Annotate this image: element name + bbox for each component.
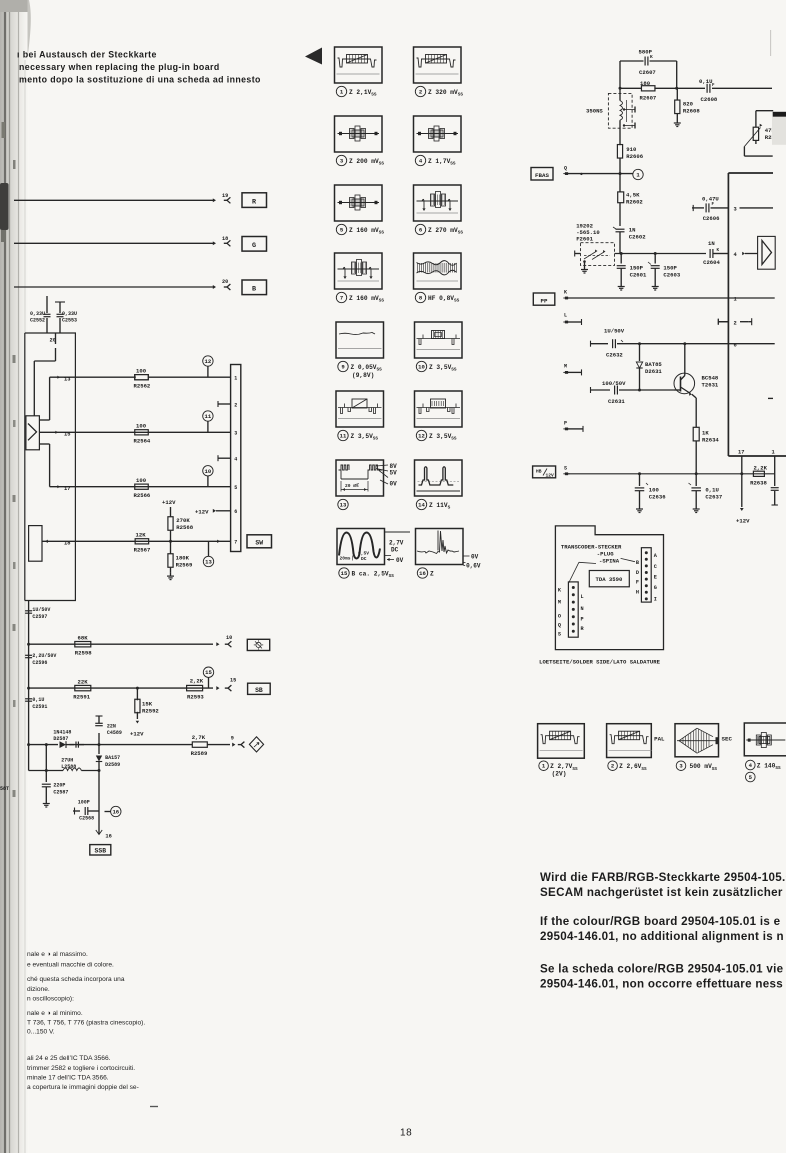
svg-text:R2638: R2638 (750, 480, 767, 487)
svg-text:SW: SW (255, 539, 263, 546)
capacitor C2606 (692, 196, 728, 223)
resistor R2598 (75, 635, 92, 657)
svg-text:15: 15 (341, 570, 348, 577)
capacitor C2552 (30, 296, 51, 333)
svg-text:Q: Q (564, 166, 567, 172)
node 12 test point (203, 356, 213, 377)
svg-text:4: 4 (749, 762, 753, 769)
svg-text:0V: 0V (390, 481, 398, 488)
svg-text:D: D (636, 570, 639, 576)
resistor R2566 (134, 477, 151, 499)
svg-text:0...150 V.: 0...150 V. (27, 1029, 55, 1036)
svg-text:Z 200 mVSS: Z 200 mVSS (349, 158, 384, 167)
svg-text:K: K (558, 588, 562, 594)
svg-text:C2568: C2568 (79, 816, 94, 822)
junction L2588 D2589 (98, 769, 101, 772)
wire B output (14, 285, 216, 289)
net stub right edge (768, 397, 773, 399)
svg-text:F: F (636, 580, 639, 586)
label fragment 587 (0, 786, 9, 792)
capacitor C2591 (25, 697, 47, 710)
svg-text:C2596: C2596 (32, 660, 47, 666)
filter F2601 dashed box (581, 243, 615, 266)
svg-text:15: 15 (205, 669, 212, 676)
transcoder leader lines (568, 558, 635, 583)
svg-text:12V: 12V (546, 473, 555, 479)
oscillogram 14 (415, 460, 463, 511)
svg-text:E: E (654, 575, 657, 581)
pointer arrow (305, 48, 322, 65)
oscillogram 4 (414, 116, 462, 167)
svg-text:0V: 0V (396, 557, 404, 564)
svg-text:S: S (564, 466, 567, 472)
svg-text:R2606: R2606 (626, 153, 643, 160)
transcoder left pin labels KMOQS (558, 588, 562, 638)
oscillogram 3 (335, 116, 385, 167)
transcoder right pin strip (641, 548, 651, 602)
svg-text:2,2K: 2,2K (754, 465, 768, 472)
ground C2601 (618, 283, 625, 290)
oscillogram 2 (414, 47, 464, 98)
svg-text:G: G (654, 585, 657, 591)
junction pin9 row (98, 743, 101, 746)
transcoder right pin labels ACEGI (654, 553, 658, 603)
capacitor C2631 (591, 380, 675, 405)
connector strip J1 (231, 365, 241, 552)
resistor R2569 (168, 541, 193, 572)
svg-text:F: F (712, 203, 715, 207)
gutter dark marks (0, 0, 31, 797)
svg-text:necessary when replacing the p: necessary when replacing the plug-in boa… (19, 62, 220, 72)
svg-text:B: B (252, 286, 256, 294)
pin 20 internal (34, 333, 56, 416)
svg-text:R2592: R2592 (142, 708, 159, 715)
ground C2603 (652, 283, 659, 290)
svg-text:C2602: C2602 (629, 234, 646, 241)
svg-text:ali 24 e 25 dell’IC TDA 3566.: ali 24 e 25 dell’IC TDA 3566. (27, 1055, 111, 1062)
svg-text:K: K (650, 54, 653, 60)
svg-text:4: 4 (234, 457, 237, 463)
resistor R2568 (168, 507, 194, 541)
ground C2637 (693, 506, 700, 513)
pin2 outside stub (718, 319, 728, 325)
svg-text:15K: 15K (142, 701, 153, 708)
svg-text:15: 15 (64, 432, 70, 438)
svg-text:16: 16 (419, 570, 426, 577)
svg-text:1U/50V: 1U/50V (604, 328, 625, 335)
svg-text:13: 13 (340, 502, 347, 509)
svg-text:6: 6 (234, 509, 237, 515)
pin 1 label (728, 297, 774, 303)
ic TDA box (728, 173, 786, 456)
svg-text:Z 270 mVSS: Z 270 mVSS (428, 227, 463, 236)
svg-text:C2606: C2606 (703, 215, 720, 222)
pin 13 stub (50, 376, 76, 383)
svg-text:+12V: +12V (736, 518, 750, 525)
svg-text:nale e ◑ al massimo.: nale e ◑ al massimo. (27, 951, 88, 958)
svg-text:270K: 270K (176, 517, 190, 524)
svg-text:11: 11 (340, 433, 347, 440)
transcoder left pin labels LNPR (581, 594, 585, 632)
pin 18 stub (771, 450, 779, 506)
page number (400, 1128, 412, 1139)
note german (540, 871, 786, 899)
wire C2607 right leg (676, 61, 678, 88)
solder side caption (539, 659, 660, 666)
net label PP (533, 293, 555, 305)
svg-text:M: M (558, 600, 561, 606)
svg-text:9: 9 (341, 364, 345, 371)
svg-text:100P: 100P (78, 800, 90, 806)
transistor T2631 (674, 344, 719, 428)
resistor R2607 (620, 80, 677, 102)
resistor R2608 (675, 88, 701, 119)
svg-text:ché questa scheda incorpora un: ché questa scheda incorpora una (27, 976, 125, 983)
ic TDA 3590 label (589, 571, 629, 587)
svg-text:R2607: R2607 (640, 95, 657, 102)
svg-text:R2589: R2589 (191, 750, 208, 757)
svg-text:K: K (564, 290, 567, 296)
svg-text:+12V: +12V (162, 499, 176, 506)
svg-text:PAL: PAL (654, 736, 665, 743)
wire pin17 to connector (75, 486, 230, 488)
svg-text:0,5V: 0,5V (358, 551, 369, 557)
resistor R2589 (191, 734, 208, 757)
svg-text:2: 2 (419, 89, 423, 96)
svg-text:Z 3,5VSS: Z 3,5VSS (429, 433, 457, 442)
svg-text:R2568: R2568 (176, 524, 193, 531)
coil 350NS dashed box (586, 93, 632, 128)
capacitor C2601 (617, 254, 647, 284)
svg-text:1N: 1N (629, 227, 636, 234)
svg-text:6: 6 (419, 227, 423, 234)
svg-text:22N: 22N (107, 724, 116, 730)
svg-text:C2603: C2603 (663, 272, 680, 279)
svg-text:10: 10 (418, 364, 425, 371)
diode D2587 (53, 730, 84, 749)
svg-text:Z 3,5VSS: Z 3,5VSS (351, 433, 379, 442)
capacitor C2596 (25, 653, 56, 666)
capacitor C2604 (703, 240, 728, 266)
capacitor C2636 (635, 474, 666, 506)
svg-text:1: 1 (772, 450, 775, 456)
node 15 test point (203, 667, 213, 688)
svg-text:T 736, T 756, T 776 (piastra c: T 736, T 756, T 776 (piastra cinescopio)… (27, 1020, 145, 1027)
svg-text:0,33U: 0,33U (30, 311, 45, 317)
svg-text:H: H (636, 590, 639, 596)
svg-text:2: 2 (234, 402, 237, 408)
svg-text:12: 12 (418, 433, 425, 440)
resistor R2562 (134, 368, 151, 390)
wire pin18 row (42, 540, 231, 543)
svg-text:Se la scheda colore/RGB 29504-: Se la scheda colore/RGB 29504-105.01 vie (540, 963, 784, 976)
ic module box left (25, 333, 76, 601)
svg-text:1: 1 (636, 172, 640, 179)
resistor R2634 (693, 427, 719, 474)
oscillogram B2 (607, 724, 665, 772)
svg-text:trimmer 2582 e togliere i cort: trimmer 2582 e togliere i cortocircuiti. (27, 1065, 135, 1072)
svg-text:C2637: C2637 (705, 494, 722, 501)
svg-text:nale e ◑ al minimo.: nale e ◑ al minimo. (27, 1010, 83, 1017)
pin 18 stub (64, 541, 70, 547)
pin 2 stub connector (218, 401, 231, 407)
oscillogram 12 (415, 391, 463, 442)
svg-text:G: G (252, 242, 256, 250)
svg-text:17: 17 (738, 450, 744, 456)
svg-text:Z 160 mVSS: Z 160 mVSS (349, 295, 384, 304)
wire pin15 to connector (75, 431, 230, 433)
pin 4 label (734, 252, 758, 258)
svg-text:0,1U: 0,1U (705, 487, 718, 494)
pot R2609 (744, 111, 773, 156)
svg-text:-PLUG: -PLUG (597, 551, 614, 558)
diode D2631 (636, 344, 662, 390)
svg-text:R2566: R2566 (134, 492, 151, 499)
capacitor C2608 (677, 78, 772, 103)
svg-text:1N: 1N (708, 240, 715, 247)
net label B (242, 280, 267, 295)
svg-text:100: 100 (136, 368, 147, 375)
wire G output (14, 241, 216, 245)
svg-text:C2632: C2632 (606, 352, 623, 359)
oscillogram 11 (336, 391, 384, 442)
svg-text:0,33U: 0,33U (62, 311, 77, 317)
filter F2601 symbol (584, 250, 610, 260)
svg-text:-0,6V: -0,6V (463, 563, 481, 570)
svg-text:10: 10 (226, 635, 232, 641)
oscillogram 8 (414, 253, 462, 304)
wire R output (14, 198, 216, 202)
svg-text:0,47U: 0,47U (702, 196, 719, 203)
svg-text:HB: HB (536, 469, 542, 475)
capacitor C2637 (689, 474, 723, 506)
svg-text:2: 2 (611, 763, 615, 770)
ground R2569 (167, 573, 174, 580)
resistor R2606 (617, 128, 643, 173)
junction R2607 (619, 87, 679, 90)
svg-text:Z 140SS: Z 140SS (757, 763, 781, 772)
heading italian line (19, 75, 261, 85)
net label FBAS (531, 168, 553, 181)
svg-text:D2631: D2631 (645, 368, 662, 375)
svg-text:C4589: C4589 (107, 730, 122, 736)
svg-text:R2593: R2593 (187, 694, 204, 701)
svg-text:C2591: C2591 (32, 704, 47, 710)
svg-text:180K: 180K (176, 555, 190, 562)
svg-text:0V: 0V (471, 554, 479, 561)
oscillogram B1 (538, 724, 585, 778)
junction pin18 (169, 540, 172, 543)
svg-text:R2569: R2569 (176, 562, 193, 569)
svg-text:C2601: C2601 (630, 272, 647, 279)
svg-text:11: 11 (205, 413, 212, 420)
pin 2 label (718, 318, 751, 326)
node 19 connector R (222, 193, 230, 203)
wire pin15 SB row (29, 686, 220, 690)
net label diamond (249, 737, 263, 752)
wire pin13 to connector (75, 376, 230, 378)
svg-text:2,7K: 2,7K (192, 734, 206, 741)
svg-text:1: 1 (542, 763, 546, 770)
svg-text:4: 4 (419, 158, 423, 165)
pin 17 stub (50, 485, 76, 492)
terminal S (563, 466, 569, 476)
svg-text:TDA 3590: TDA 3590 (596, 576, 623, 583)
supply +12V pin6 (195, 509, 231, 516)
ground R2608 (674, 120, 681, 127)
oscillogram 13 (336, 460, 397, 510)
svg-text:SB: SB (255, 687, 263, 694)
wire chroma row (615, 252, 707, 255)
wire left rail lower (27, 601, 30, 771)
terminal K (563, 290, 569, 300)
svg-text:Wird die FARB/RGB-Steckkarte 2: Wird die FARB/RGB-Steckkarte 29504-105.0… (540, 871, 786, 884)
svg-text:Z 2,1VSS: Z 2,1VSS (349, 89, 377, 98)
svg-text:R2591: R2591 (73, 694, 90, 701)
svg-text:500 mVSS: 500 mVSS (690, 763, 718, 772)
wire pin10 row (29, 642, 220, 646)
svg-text:DC: DC (361, 556, 367, 562)
svg-text:ı bei Austausch der Steckkarte: ı bei Austausch der Steckkarte (17, 50, 157, 60)
svg-text:B ca. 2,5VSS: B ca. 2,5VSS (352, 571, 395, 580)
svg-text:100: 100 (136, 423, 147, 430)
svg-text:P: P (581, 617, 584, 623)
svg-text:1: 1 (340, 89, 344, 96)
resistor R2591 (73, 679, 91, 701)
svg-text:18: 18 (400, 1128, 412, 1139)
terminal P (563, 421, 583, 432)
wire K to pin1 (568, 297, 728, 299)
node 20 connector B (222, 279, 230, 290)
wire left drop C2587 (45, 745, 48, 782)
svg-text:17: 17 (64, 486, 70, 492)
capacitor C2632 (591, 328, 729, 359)
wire pot top (756, 110, 773, 112)
svg-text:R2562: R2562 (134, 383, 151, 390)
svg-text:C2597: C2597 (32, 614, 47, 620)
oscillogram 7 (335, 253, 385, 304)
resistor R2602 (618, 174, 644, 226)
svg-text:L2588: L2588 (61, 764, 76, 770)
diode D2589 (96, 745, 120, 771)
oscillogram 15 (337, 529, 410, 580)
junction C2632 row (638, 342, 686, 345)
oscillogram 9 (336, 322, 384, 379)
svg-text:S: S (558, 632, 561, 638)
svg-text:12K: 12K (136, 532, 147, 539)
resistor R2593 (187, 678, 205, 701)
svg-text:7: 7 (340, 295, 343, 302)
supply +12V R2592 (130, 721, 144, 738)
transcoder title (561, 544, 622, 565)
svg-text:4,5K: 4,5K (626, 192, 640, 199)
svg-text:minale 17 dell’IC TDA 3566.: minale 17 dell’IC TDA 3566. (27, 1074, 109, 1081)
note english (540, 915, 784, 943)
svg-text:C2631: C2631 (608, 398, 625, 405)
capacitor C2587 (42, 783, 69, 801)
svg-text:BC548: BC548 (702, 375, 719, 382)
heading english line (19, 62, 220, 72)
svg-text:2,7V: 2,7V (389, 540, 404, 547)
svg-text:n oscilloscopio):: n oscilloscopio): (27, 996, 74, 1003)
svg-text:C2553: C2553 (62, 318, 77, 324)
resistor R2638 (750, 465, 767, 487)
ground C2587 (43, 800, 50, 807)
scan shade right (772, 117, 786, 145)
oscillogram 1 (335, 47, 383, 98)
capacitor C2607 (620, 49, 677, 77)
transcoder right pin labels BDFH (636, 560, 639, 596)
net label R (242, 193, 267, 208)
svg-text:1K: 1K (702, 430, 709, 437)
svg-text:PP: PP (541, 297, 548, 304)
svg-text:4: 4 (734, 252, 738, 258)
svg-text:Z: Z (430, 571, 434, 578)
svg-text:19: 19 (222, 193, 228, 199)
svg-text:16: 16 (112, 809, 119, 816)
ground F2601 (581, 260, 588, 273)
svg-text:e eventuali macchie di colore.: e eventuali macchie di colore. (27, 961, 114, 968)
svg-text:R2608: R2608 (683, 108, 700, 115)
svg-text:O: O (558, 614, 561, 620)
svg-text:5: 5 (340, 227, 344, 234)
svg-text:L: L (581, 594, 584, 600)
terminal L (563, 313, 581, 326)
svg-text:0,1U: 0,1U (32, 697, 44, 703)
svg-text:68K: 68K (78, 635, 89, 642)
svg-text:2,2U/50V: 2,2U/50V (32, 653, 56, 659)
svg-text:3: 3 (340, 158, 344, 165)
net label brightness (247, 639, 269, 650)
node 11 test point (203, 411, 213, 433)
wire S rail (568, 472, 775, 475)
svg-text:Z 160 mVSS: Z 160 mVSS (349, 227, 384, 236)
svg-text:SECAM nachgerüstet ist kein zu: SECAM nachgerüstet ist kein zusätzlicher… (540, 886, 786, 899)
junction C2631 row (638, 389, 641, 392)
node 16 test point (99, 771, 121, 835)
pin 17 stub (738, 450, 744, 512)
svg-text:20: 20 (222, 279, 228, 285)
junction SB (136, 687, 139, 690)
capacitor C2603 (648, 254, 681, 284)
svg-text:Z 11VS: Z 11VS (429, 502, 451, 511)
svg-text:K: K (717, 249, 720, 253)
faint crease top right (770, 30, 772, 56)
net label SSB (90, 845, 111, 855)
oscillogram 5 (335, 185, 385, 236)
svg-text:R2567: R2567 (134, 547, 151, 554)
internal wire amp top (39, 377, 49, 420)
capacitor C2597 (25, 607, 50, 620)
svg-text:Z 3,5VSS: Z 3,5VSS (429, 364, 457, 373)
op-amp U1 internal (26, 416, 40, 450)
svg-text:180: 180 (640, 80, 651, 87)
svg-text:820: 820 (683, 101, 694, 108)
junction D2587 left (45, 743, 48, 746)
svg-text:R: R (252, 199, 257, 207)
svg-text:FBAS: FBAS (535, 172, 549, 179)
filter F2601 label (576, 223, 600, 243)
svg-text:Z 2,6VSS: Z 2,6VSS (619, 763, 647, 772)
svg-text:5V: 5V (390, 470, 398, 477)
svg-text:220P: 220P (53, 783, 65, 789)
svg-text:150P: 150P (663, 265, 677, 272)
svg-text:TRANSCODER-STECKER: TRANSCODER-STECKER (561, 544, 622, 551)
svg-text:150P: 150P (630, 265, 644, 272)
footnote italian block (27, 951, 145, 1091)
svg-text:F: F (712, 84, 715, 88)
pin 4 stub connector (218, 455, 231, 461)
